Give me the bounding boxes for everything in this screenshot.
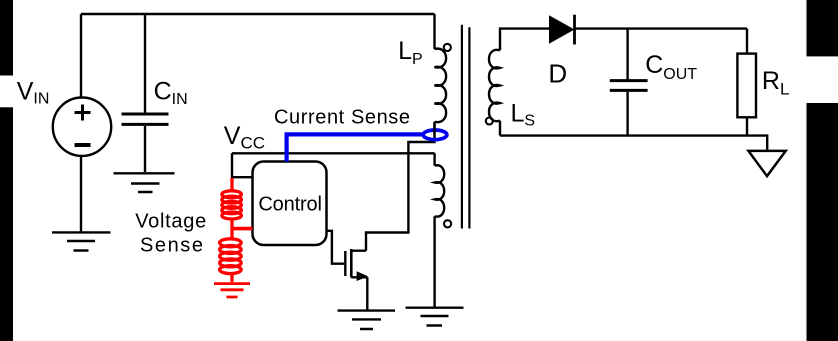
polarity dot LP — [444, 44, 451, 51]
output ground triangle — [748, 151, 785, 176]
svg-text:Current Sense: Current Sense — [274, 107, 410, 129]
wire RL bottom — [746, 119, 748, 136]
wire secondary top rail — [575, 27, 748, 29]
capacitor CIN — [122, 114, 169, 124]
wire input top rail — [81, 13, 435, 15]
transistor Q1 MOSFET — [345, 249, 367, 278]
inductor LS — [489, 50, 500, 121]
wire LP top — [433, 14, 435, 49]
control block U1 — [253, 162, 327, 246]
current sense wire (blue) — [287, 134, 423, 161]
wire COUT top — [626, 29, 628, 80]
wire VIN bottom — [80, 157, 82, 232]
wire secondary bottom rail — [500, 136, 767, 150]
wire CIN bottom — [144, 126, 146, 172]
resistor divider upper (red) — [220, 178, 253, 282]
capacitor COUT — [610, 81, 648, 91]
transformer core — [462, 25, 470, 229]
svg-text:Voltage: Voltage — [135, 211, 206, 233]
current sense loop (blue ellipse) — [423, 130, 447, 140]
wire source down — [366, 277, 368, 310]
wire through sense loop — [433, 124, 435, 134]
ground MOSFET — [338, 311, 396, 329]
ground aux winding — [406, 308, 464, 326]
wire COUT bottom — [626, 92, 628, 136]
ground voltage sense (red) — [214, 284, 250, 297]
ground VIN — [52, 232, 111, 250]
wire LP bottom to drain — [366, 122, 435, 251]
diode D — [549, 15, 575, 44]
inductor LP — [435, 49, 447, 123]
svg-text:Sense: Sense — [140, 235, 203, 257]
polarity dot aux — [444, 220, 451, 227]
svg-text:D: D — [548, 58, 567, 88]
wire aux bottom — [433, 216, 435, 306]
ground CIN — [114, 173, 175, 192]
wire LS bottom — [499, 121, 501, 136]
wire LS top — [500, 29, 549, 51]
wire aux top — [433, 153, 435, 165]
wire VCC down — [232, 153, 253, 177]
svg-text:Control: Control — [258, 194, 322, 216]
wire CIN top — [144, 14, 146, 113]
inductor aux winding — [435, 165, 445, 216]
polarity dot LS — [486, 118, 493, 125]
wire RL top — [746, 29, 748, 53]
wire VCC rail — [232, 152, 435, 154]
resistor RL — [737, 54, 756, 118]
voltage source VIN — [53, 98, 111, 156]
wire VIN to rail — [80, 14, 82, 97]
red tap wire — [232, 227, 253, 231]
wire gate — [327, 231, 345, 264]
resistor divider lower (red) — [230, 229, 233, 240]
